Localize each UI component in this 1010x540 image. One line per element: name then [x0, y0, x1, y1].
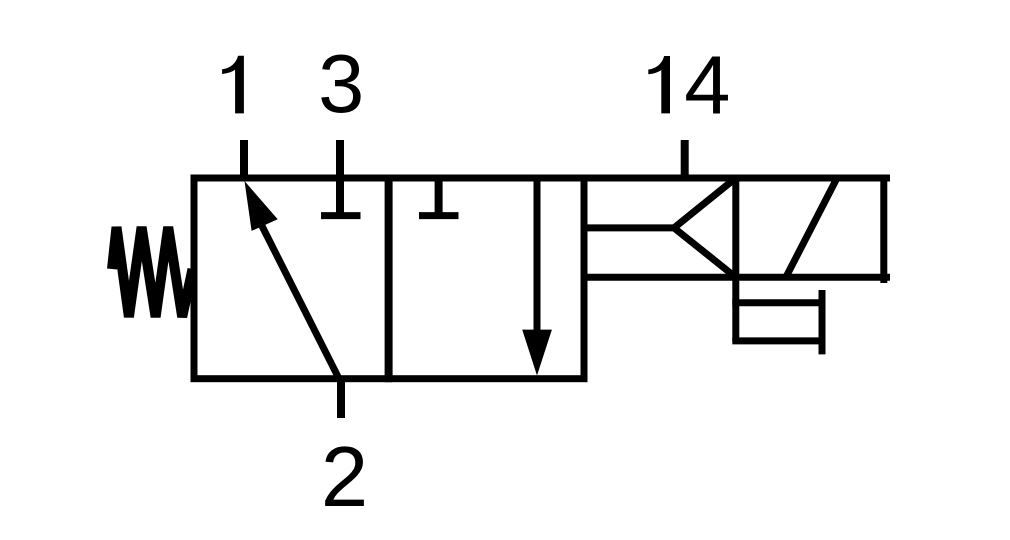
- pilot mid line 14: [584, 224, 674, 231]
- divider between positions: [385, 178, 393, 379]
- valve body box 2 (right position): [389, 178, 585, 379]
- svg-text:3: 3: [318, 37, 364, 130]
- blocked port T (box 2): [435, 178, 443, 216]
- latch rectangle top line: [732, 299, 822, 306]
- port stub 1: [240, 140, 248, 178]
- return spring: [112, 227, 193, 317]
- port label 1 (custom helvetica-style glyph): [222, 56, 244, 114]
- solenoid box left edge (extends down to latch): [732, 178, 739, 341]
- solenoid diagonal: [786, 180, 836, 277]
- blocked port T crossbar (box 2): [419, 212, 459, 219]
- svg-text:2: 2: [321, 430, 368, 525]
- pilot stub 14: [681, 140, 689, 178]
- top rail to pilot/solenoid: [584, 175, 890, 182]
- solenoid box right edge: [880, 175, 887, 283]
- blocked port T crossbar (port 3, box 1): [321, 212, 361, 219]
- latch rectangle right edge: [819, 290, 826, 354]
- pilot channel bottom line: [584, 274, 890, 281]
- pilot triangle (air pilot): [674, 178, 736, 277]
- valve body box 1 (left position): [194, 178, 389, 379]
- port stub 2: [337, 379, 345, 418]
- port stub 3: [336, 140, 344, 216]
- svg-text:4: 4: [684, 39, 730, 132]
- flow path arrow 2->1 head: [245, 181, 278, 231]
- flow path arrow 2->1 (box 1) shaft: [262, 226, 339, 379]
- latch rectangle bottom line: [732, 337, 822, 344]
- blocked flow arrow down (box 2) shaft: [534, 178, 541, 333]
- blocked flow arrow down head: [522, 330, 552, 376]
- pilot label 14: digit 1 (custom glyph): [648, 56, 670, 113]
